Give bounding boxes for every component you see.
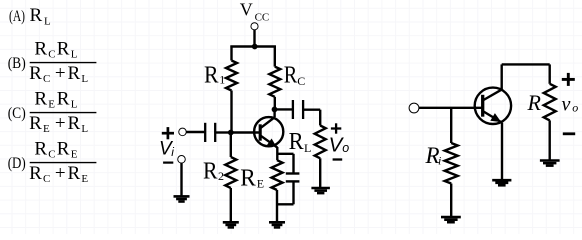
ground input <box>174 196 190 201</box>
transistor Q1 emitter <box>261 136 278 148</box>
label RL <box>289 129 312 155</box>
ground RE <box>269 222 285 227</box>
wire top rail <box>230 45 276 47</box>
resistor R1 <box>226 61 237 91</box>
label RC <box>284 63 306 89</box>
svg-text:E: E <box>48 99 55 111</box>
resistor R2 <box>225 157 236 188</box>
option (B) label <box>8 55 26 72</box>
svg-text:L: L <box>304 141 311 155</box>
option (D) numerator <box>34 139 77 161</box>
terminal input bottom <box>178 156 185 163</box>
label v_o <box>562 94 579 116</box>
option (D) denominator <box>29 163 88 185</box>
wire RL to ground <box>319 158 321 188</box>
svg-text:R: R <box>203 158 218 184</box>
wire Ri to ground <box>450 184 452 218</box>
label V_CC <box>240 0 269 23</box>
wire base node to R2 <box>230 133 232 158</box>
wire Q1 emitter down <box>276 147 278 160</box>
option (B) fraction bar <box>30 62 97 64</box>
wire V_CC to rail <box>253 30 255 47</box>
label RE <box>240 166 264 192</box>
option (B) denominator <box>29 63 88 85</box>
capacitor C2 output coupling <box>293 100 303 119</box>
svg-text:(A): (A) <box>9 8 25 25</box>
svg-text:CC: CC <box>255 11 270 23</box>
svg-text:1: 1 <box>219 73 225 87</box>
capacitor CE plates <box>286 174 300 182</box>
svg-text:L: L <box>81 73 88 85</box>
terminal input top <box>179 129 186 136</box>
wire base node to Q1 <box>231 131 259 133</box>
transistor Q2 collector <box>484 64 502 100</box>
wire node to Ri <box>450 108 452 143</box>
resistor Ri <box>445 143 458 184</box>
label V_o <box>329 134 350 157</box>
option (A) label <box>9 8 25 25</box>
terminal input right <box>410 104 419 113</box>
svg-text:C: C <box>48 149 55 161</box>
ground RL <box>311 188 330 193</box>
wire R2 to ground <box>230 188 232 222</box>
svg-text:L: L <box>81 123 88 135</box>
svg-text:R: R <box>57 89 70 110</box>
wire rail to R1 <box>230 46 232 61</box>
resistor RE <box>272 160 283 190</box>
transistor Q2 emitter <box>484 112 503 123</box>
minus sign v_o <box>563 132 575 135</box>
svg-text:R: R <box>204 62 219 88</box>
svg-text:R: R <box>68 63 81 84</box>
junction dot collector <box>272 107 278 113</box>
junction dot base node <box>228 130 234 136</box>
svg-text:(D): (D) <box>8 155 26 172</box>
svg-text:E: E <box>71 149 78 161</box>
option (D) label <box>8 155 26 172</box>
svg-text:+: + <box>55 63 66 84</box>
capacitor CE bypass lead top <box>292 154 294 174</box>
wire input to base <box>419 107 482 109</box>
svg-text:+: + <box>55 163 66 184</box>
wire R to ground <box>549 120 551 160</box>
transistor Q1 body <box>254 117 283 146</box>
wire C2 to RL <box>303 110 320 126</box>
svg-text:V: V <box>240 0 253 19</box>
label R1 <box>204 62 225 88</box>
ground R <box>540 161 560 166</box>
wire RC to collector node <box>274 97 276 110</box>
svg-text:o: o <box>342 141 349 155</box>
svg-text:R: R <box>68 113 81 134</box>
plus sign v_o <box>562 73 575 86</box>
label R <box>527 90 542 115</box>
svg-text:R: R <box>34 89 47 110</box>
resistor RL <box>315 126 326 159</box>
wire C1 to base node <box>215 131 231 133</box>
svg-text:2: 2 <box>218 169 224 183</box>
svg-text:E: E <box>81 173 88 185</box>
wire bottom node to CE <box>277 203 294 205</box>
svg-text:R: R <box>240 166 256 192</box>
junction dot top rail <box>252 44 258 50</box>
svg-text:i: i <box>171 145 174 159</box>
plus sign input <box>162 127 174 139</box>
svg-text:(B): (B) <box>8 55 26 72</box>
svg-text:L: L <box>71 49 78 61</box>
svg-text:R: R <box>527 90 542 115</box>
minus sign input <box>163 162 173 164</box>
transistor Q1 base bar <box>259 124 262 140</box>
option (D) fraction bar <box>30 162 97 164</box>
transistor Q2 base bar <box>481 95 484 117</box>
svg-text:E: E <box>257 176 264 190</box>
svg-text:C: C <box>43 173 50 185</box>
wire RE to bottom node <box>276 190 278 222</box>
svg-text:C: C <box>43 73 50 85</box>
svg-text:v: v <box>562 94 571 116</box>
svg-text:R: R <box>289 129 304 155</box>
label Ri <box>425 143 442 168</box>
svg-text:R: R <box>29 63 42 84</box>
svg-text:R: R <box>29 163 42 184</box>
svg-text:R: R <box>30 5 43 26</box>
svg-text:R: R <box>29 113 42 134</box>
svg-text:R: R <box>34 39 47 60</box>
transistor Q1 collector <box>261 109 275 127</box>
wire input to C1 <box>186 131 205 133</box>
option (C) numerator <box>34 89 77 111</box>
wire emitter down <box>501 123 503 181</box>
wire R1 to base node <box>230 91 232 133</box>
ground R2 <box>223 222 239 227</box>
label R2 <box>203 158 224 184</box>
option (A) value R_L <box>30 5 52 28</box>
svg-text:(C): (C) <box>8 105 26 122</box>
option (C) fraction bar <box>30 112 97 114</box>
resistor R <box>544 84 556 121</box>
ground Ri <box>441 217 461 222</box>
svg-text:L: L <box>71 99 78 111</box>
option (C) denominator <box>29 113 88 135</box>
svg-text:+: + <box>55 113 66 134</box>
svg-text:L: L <box>44 16 51 28</box>
svg-text:C: C <box>297 74 305 88</box>
terminal V_CC <box>251 23 257 29</box>
option (B) numerator <box>34 39 77 61</box>
transistor Q2 body <box>475 88 511 124</box>
resistor RC <box>269 67 280 97</box>
svg-text:C: C <box>48 49 55 61</box>
svg-text:E: E <box>43 123 50 135</box>
wire collector to C2 <box>275 108 293 110</box>
svg-text:R: R <box>68 163 81 184</box>
svg-text:R: R <box>284 63 298 89</box>
minus sign output <box>333 158 343 160</box>
plus sign output <box>331 123 341 133</box>
label V_i <box>159 139 174 160</box>
capacitor CE lead bottom <box>292 181 294 204</box>
option (C) label <box>8 105 26 122</box>
wire rail to RC <box>274 46 276 67</box>
wire collector rail <box>502 64 550 83</box>
svg-text:R: R <box>57 139 70 160</box>
svg-text:o: o <box>572 100 578 114</box>
capacitor C1 input coupling <box>205 123 215 142</box>
ground emitter <box>492 180 511 185</box>
svg-text:i: i <box>438 153 441 167</box>
wire input bottom to ground <box>180 163 182 197</box>
svg-text:R: R <box>34 139 47 160</box>
svg-text:R: R <box>57 39 70 60</box>
wire emitter node to CE <box>277 153 294 155</box>
